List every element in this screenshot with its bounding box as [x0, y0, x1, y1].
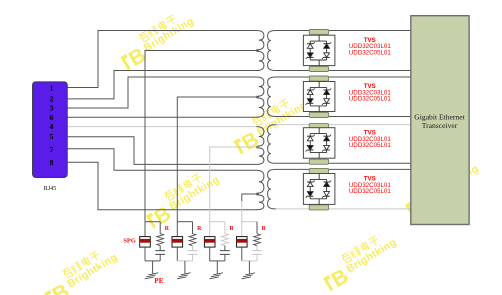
svg-text:Transceiver: Transceiver: [422, 121, 458, 130]
TVS D1 body: [303, 35, 335, 65]
TVS D3 diode right-bottom: [323, 149, 329, 151]
TVS D2 diode left-top: [307, 89, 313, 91]
TVS D1 bottom pad: [309, 66, 328, 71]
wire pin7 to T4 primary top: [67, 149, 256, 170]
svg-text:1: 1: [50, 83, 54, 92]
transformer T3 primary winding lower: [256, 148, 264, 165]
svg-text:2: 2: [50, 95, 54, 104]
wire T4 secondary top to transceiver: [276, 168, 411, 170]
TVS D1 diode right-bottom: [323, 56, 329, 58]
TVS D1 diode right-top: [323, 43, 329, 45]
svg-text:UDD32C05L01: UDD32C05L01: [349, 95, 392, 102]
wire resistor to capacitor network 1: [159, 246, 161, 251]
wire pin3 to T2 primary top: [67, 77, 256, 108]
watermark group 2: [228, 90, 314, 158]
wire T4 center tap to protection network 4: [242, 194, 259, 201]
svg-text:SPG: SPG: [123, 238, 135, 245]
watermark group 3: [140, 165, 226, 233]
TVS D3 bottom pad: [309, 159, 328, 164]
wire join network 4: [242, 260, 257, 262]
wire T2 center tap to protection network 2: [177, 97, 258, 222]
wire network 3 left branch lower: [209, 247, 211, 261]
surge protector SPG4: [237, 237, 248, 248]
wire T4 secondary bottom to transceiver: [276, 208, 411, 210]
resistor R network 3: [222, 234, 229, 246]
TVS D2 body: [303, 82, 335, 112]
TVS D1 internal rails: [318, 35, 320, 41]
TVS D4 top pad: [309, 168, 328, 173]
wire network 4 right branch upper: [256, 222, 258, 234]
wire resistor to capacitor network 4: [256, 246, 258, 251]
wire network 1 right branch upper: [159, 222, 161, 234]
TVS D2 diode right-top: [323, 89, 329, 91]
TVS D3 diode left-bottom: [307, 149, 313, 151]
wire capacitor to join network 3: [224, 254, 226, 261]
Gigabit Ethernet Transceiver block U1: [411, 16, 469, 225]
capacitor C network 2: [188, 250, 198, 252]
wire join network 1: [145, 260, 160, 262]
TVS D1 top pad: [309, 30, 328, 35]
watermark group 5: [318, 227, 404, 295]
TVS D4 internal rails: [318, 174, 320, 180]
TVS D4 diode left-top: [307, 181, 313, 183]
transformer T1 primary winding lower: [256, 51, 264, 70]
TVS D3 diode left-top: [307, 135, 313, 137]
wire T3 center tap to protection network 3: [210, 147, 259, 222]
wire resistor to capacitor network 2: [192, 246, 194, 251]
wire pin8 to T4 primary bottom: [67, 162, 256, 210]
wire network 4 left branch lower: [241, 247, 243, 261]
resistor R network 1: [157, 234, 164, 246]
capacitor C network 3: [220, 250, 230, 252]
ground network 3: [216, 261, 218, 274]
TVS D1 diode left-bottom: [307, 56, 313, 58]
TVS D4 bottom pad: [309, 205, 328, 210]
wire join network 2: [177, 260, 192, 262]
transformer T2 primary winding upper: [256, 77, 264, 96]
capacitor C network 1: [155, 250, 165, 252]
wire network 1 left branch lower: [144, 247, 146, 261]
transformer T4 primary winding lower: [256, 195, 264, 210]
wire T2 secondary bottom to transceiver: [276, 116, 411, 118]
TVS D2 bottom pad: [309, 112, 328, 117]
watermark group 6 (behind transceiver): [400, 154, 486, 222]
svg-text:3: 3: [50, 104, 54, 113]
TVS D2 top pad: [309, 76, 328, 81]
svg-text:8: 8: [50, 158, 54, 167]
svg-text:PE: PE: [154, 277, 163, 285]
resistor R network 4: [254, 234, 261, 246]
wire pin1 to T1 primary top: [67, 31, 256, 88]
wire network 3 right branch upper: [224, 222, 226, 234]
wire network 1 left branch upper: [144, 222, 146, 237]
TVS D1 diode left-top: [307, 43, 313, 45]
transformer T3 primary winding upper: [256, 127, 264, 147]
wire capacitor to join network 2: [192, 254, 194, 261]
surge protector SPG2: [172, 237, 183, 248]
svg-text:RJ45: RJ45: [44, 185, 57, 192]
node T-junction network 4: [242, 221, 257, 223]
TVS D4 diode right-bottom: [323, 195, 329, 197]
svg-text:7: 7: [50, 145, 54, 154]
TVS D2 internal rails: [318, 82, 320, 88]
svg-text:4: 4: [50, 122, 54, 131]
wire join network 3: [210, 260, 225, 262]
ground network 4: [248, 261, 250, 274]
svg-text:UDD32C05L01: UDD32C05L01: [349, 142, 392, 149]
resistor R network 2: [189, 234, 196, 246]
wire network 3 left branch upper: [209, 222, 211, 237]
transformer T4 secondary winding: [268, 169, 276, 209]
wire pin4 to T3 primary top: [67, 126, 256, 128]
wire T3 secondary top to transceiver: [276, 124, 411, 126]
wire pin5 to T3 primary bottom: [67, 137, 256, 165]
watermark group 1: [115, 6, 201, 74]
TVS D4 diode right-top: [323, 181, 329, 183]
capacitor C network 4: [252, 250, 262, 252]
wire network 4 left branch upper: [241, 222, 243, 237]
transformer T2 primary winding lower: [256, 98, 264, 117]
svg-text:UDD32C05L01: UDD32C05L01: [349, 49, 392, 56]
TVS D2 diode right-bottom: [323, 102, 329, 104]
TVS D3 internal rails: [318, 128, 320, 134]
wire T2 secondary top to transceiver: [276, 76, 411, 78]
wire pin6 to T2 primary bottom: [67, 116, 256, 118]
watermark group 4: [39, 242, 125, 295]
wire resistor to capacitor network 3: [224, 246, 226, 251]
svg-text:6: 6: [50, 113, 54, 122]
wire capacitor to join network 4: [256, 254, 258, 261]
transformer T3 secondary winding: [268, 125, 276, 164]
wire network 2 left branch upper: [176, 222, 178, 237]
node T-junction network 3: [210, 221, 225, 223]
wire network 2 left branch lower: [176, 247, 178, 261]
TVS D3 body: [303, 128, 335, 159]
TVS D3 top pad: [309, 124, 328, 129]
ground network 2: [184, 261, 186, 274]
RJ45 connector body: [33, 82, 68, 178]
transformer T1 secondary winding: [268, 31, 276, 71]
wire T1 secondary top to transceiver: [276, 30, 411, 32]
wire pin2 to T1 primary bottom: [67, 71, 256, 99]
wire capacitor to join network 1: [159, 254, 161, 261]
ground network 1: [152, 261, 154, 274]
node T-junction network 2: [177, 221, 192, 223]
node T-junction network 1: [145, 221, 160, 223]
TVS D2 diode left-bottom: [307, 102, 313, 104]
wire T1 secondary bottom to transceiver: [276, 70, 411, 72]
transformer T1 primary winding upper: [256, 31, 264, 50]
surge protector SPG1: [140, 237, 151, 248]
surge protector SPG3: [204, 237, 215, 248]
wire T1 center tap to protection network 1: [145, 51, 259, 222]
TVS D4 diode left-bottom: [307, 195, 313, 197]
svg-text:5: 5: [50, 132, 54, 141]
transformer T4 primary winding upper: [256, 170, 264, 193]
TVS D4 body: [303, 174, 335, 205]
transformer T2 secondary winding: [268, 77, 276, 117]
TVS D3 diode right-top: [323, 135, 329, 137]
wire network 2 right branch upper: [192, 222, 194, 234]
wire T3 secondary bottom to transceiver: [276, 162, 411, 164]
svg-text:UDD32C05L01: UDD32C05L01: [349, 188, 392, 195]
